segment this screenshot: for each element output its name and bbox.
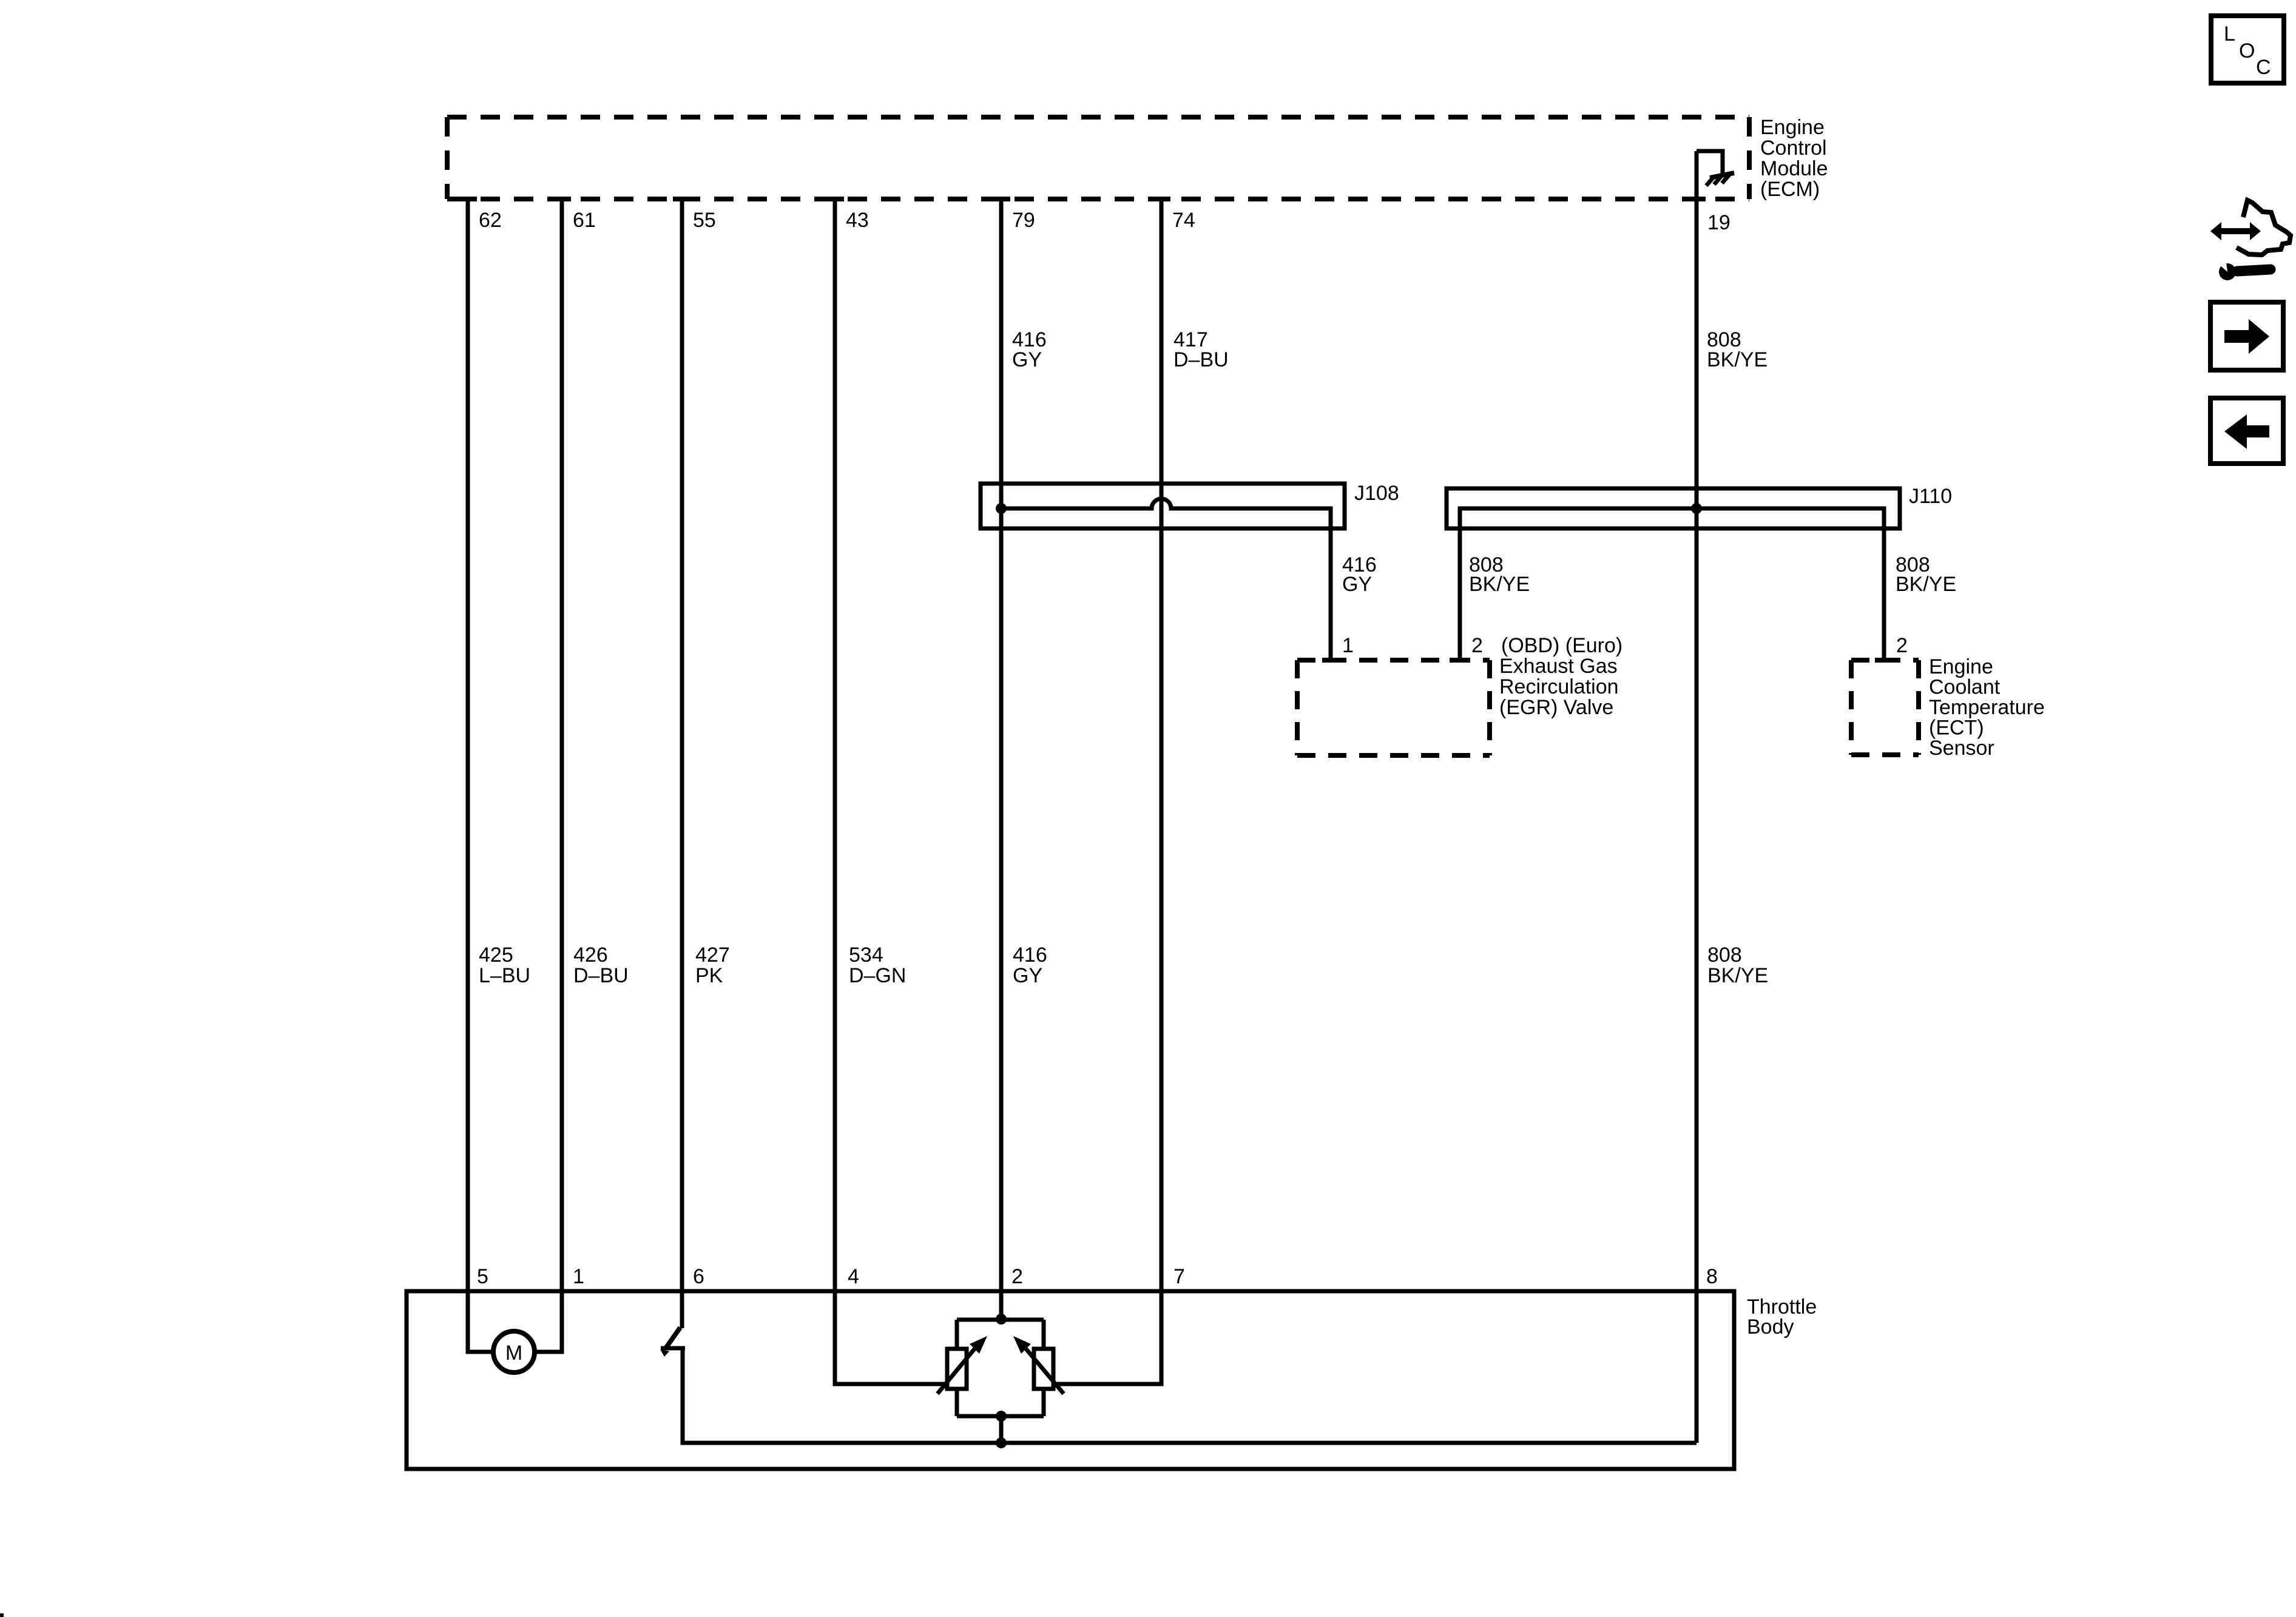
right wiper arrow shaft	[1025, 1348, 1064, 1394]
svg-text:6: 6	[693, 1265, 704, 1288]
svg-text:55: 55	[693, 209, 716, 232]
svg-text:416GY: 416GY	[1012, 328, 1047, 371]
forward arrow box	[2210, 302, 2283, 370]
switch lower contact bar	[661, 1346, 685, 1351]
wire 427 PK pin55 to pin6 switch	[680, 199, 684, 1328]
svg-text:62: 62	[479, 209, 502, 232]
svg-text:2: 2	[1896, 634, 1908, 657]
svg-text:(OBD) (Euro): (OBD) (Euro)	[1501, 634, 1622, 657]
svg-text:416GY: 416GY	[1013, 944, 1047, 987]
terminal dash ticks at EGR and ECT box tops	[1322, 658, 1893, 663]
terminal dash ticks at ECM bottom edge	[459, 197, 1706, 201]
potentiometer loop top bar	[957, 1318, 1044, 1322]
svg-text:74: 74	[1172, 209, 1195, 232]
ECM dashed box	[447, 117, 1749, 199]
wire 534 D-GN pin43 to pin4	[835, 199, 945, 1384]
svg-text:L: L	[2224, 22, 2235, 46]
ECT sensor dashed box	[1851, 660, 1919, 755]
LOC legend box	[2211, 16, 2284, 83]
stub from loop bottom to switch run	[999, 1416, 1004, 1443]
svg-text:5: 5	[477, 1265, 488, 1288]
svg-text:7: 7	[1173, 1265, 1185, 1288]
service icon panel outline	[2237, 200, 2291, 255]
throttle body box	[407, 1291, 1734, 1469]
svg-text:43: 43	[846, 209, 869, 232]
svg-text:79: 79	[1012, 209, 1035, 232]
wire 808 BK/YE pin19 to pin8	[1695, 151, 1699, 1443]
wire 426 D-BU pin61 to pin1	[535, 199, 562, 1352]
wire jog to ECM internal ground	[1697, 151, 1723, 174]
junction dot switch run	[996, 1437, 1007, 1448]
svg-text:J108: J108	[1354, 482, 1399, 505]
junction dot pot top	[996, 1314, 1007, 1325]
svg-text:O: O	[2239, 39, 2255, 62]
left wiper arrowhead	[970, 1336, 987, 1354]
potentiometer loop right branch	[1042, 1320, 1046, 1416]
svg-text:1: 1	[573, 1265, 584, 1288]
right potentiometer resistor body	[1034, 1349, 1053, 1389]
svg-text:EngineControlModule(ECM): EngineControlModule(ECM)	[1760, 116, 1828, 201]
service icon wrench	[2213, 257, 2271, 280]
wire 417 D-BU pin74 to pin7	[1056, 199, 1161, 1384]
left potentiometer resistor body	[947, 1349, 967, 1389]
page artifact dot bottom-left	[0, 1613, 4, 1617]
svg-text:2: 2	[1471, 634, 1483, 657]
svg-text:C: C	[2256, 56, 2271, 79]
right wiper arrowhead	[1013, 1336, 1031, 1354]
service icon double arrow	[2210, 222, 2261, 240]
EGR valve dashed box	[1297, 660, 1490, 755]
potentiometer loop bottom bar	[957, 1414, 1044, 1419]
wire 425 L-BU pin62 to pin5	[468, 199, 493, 1352]
J110 splice bus	[1460, 508, 1884, 660]
potentiometer loop left branch	[955, 1320, 959, 1416]
svg-text:M: M	[505, 1342, 522, 1365]
svg-text:J110: J110	[1909, 485, 1952, 508]
back arrow box	[2210, 398, 2283, 464]
motor circle	[493, 1331, 535, 1372]
junction block J108	[981, 484, 1345, 528]
svg-text:Exhaust GasRecirculation(EGR): Exhaust GasRecirculation(EGR) Valve	[1499, 655, 1619, 719]
junction dot pot bottom	[996, 1411, 1007, 1422]
svg-text:4: 4	[848, 1265, 859, 1288]
svg-text:19: 19	[1707, 211, 1730, 234]
junction dot J110 bus / wire 808	[1691, 503, 1702, 514]
svg-text:2: 2	[1011, 1265, 1023, 1288]
svg-text:1: 1	[1342, 634, 1354, 657]
junction dot J108 bus / wire 416	[996, 503, 1007, 514]
J108 splice bus with hop over wire 417	[1001, 499, 1331, 660]
wire 416 GY pin79 to pin2	[999, 199, 1004, 1319]
left wiper arrow shaft	[937, 1348, 975, 1394]
wire from switch to pin8 run	[683, 1348, 1697, 1443]
switch blade in throttle body	[666, 1328, 680, 1348]
svg-text:8: 8	[1706, 1265, 1718, 1288]
svg-text:61: 61	[573, 209, 596, 232]
svg-text:416GY: 416GY	[1342, 553, 1377, 596]
ECM internal ground symbol	[1706, 173, 1734, 186]
switch blade arrowhead	[660, 1349, 669, 1357]
junction block J110	[1447, 488, 1900, 528]
